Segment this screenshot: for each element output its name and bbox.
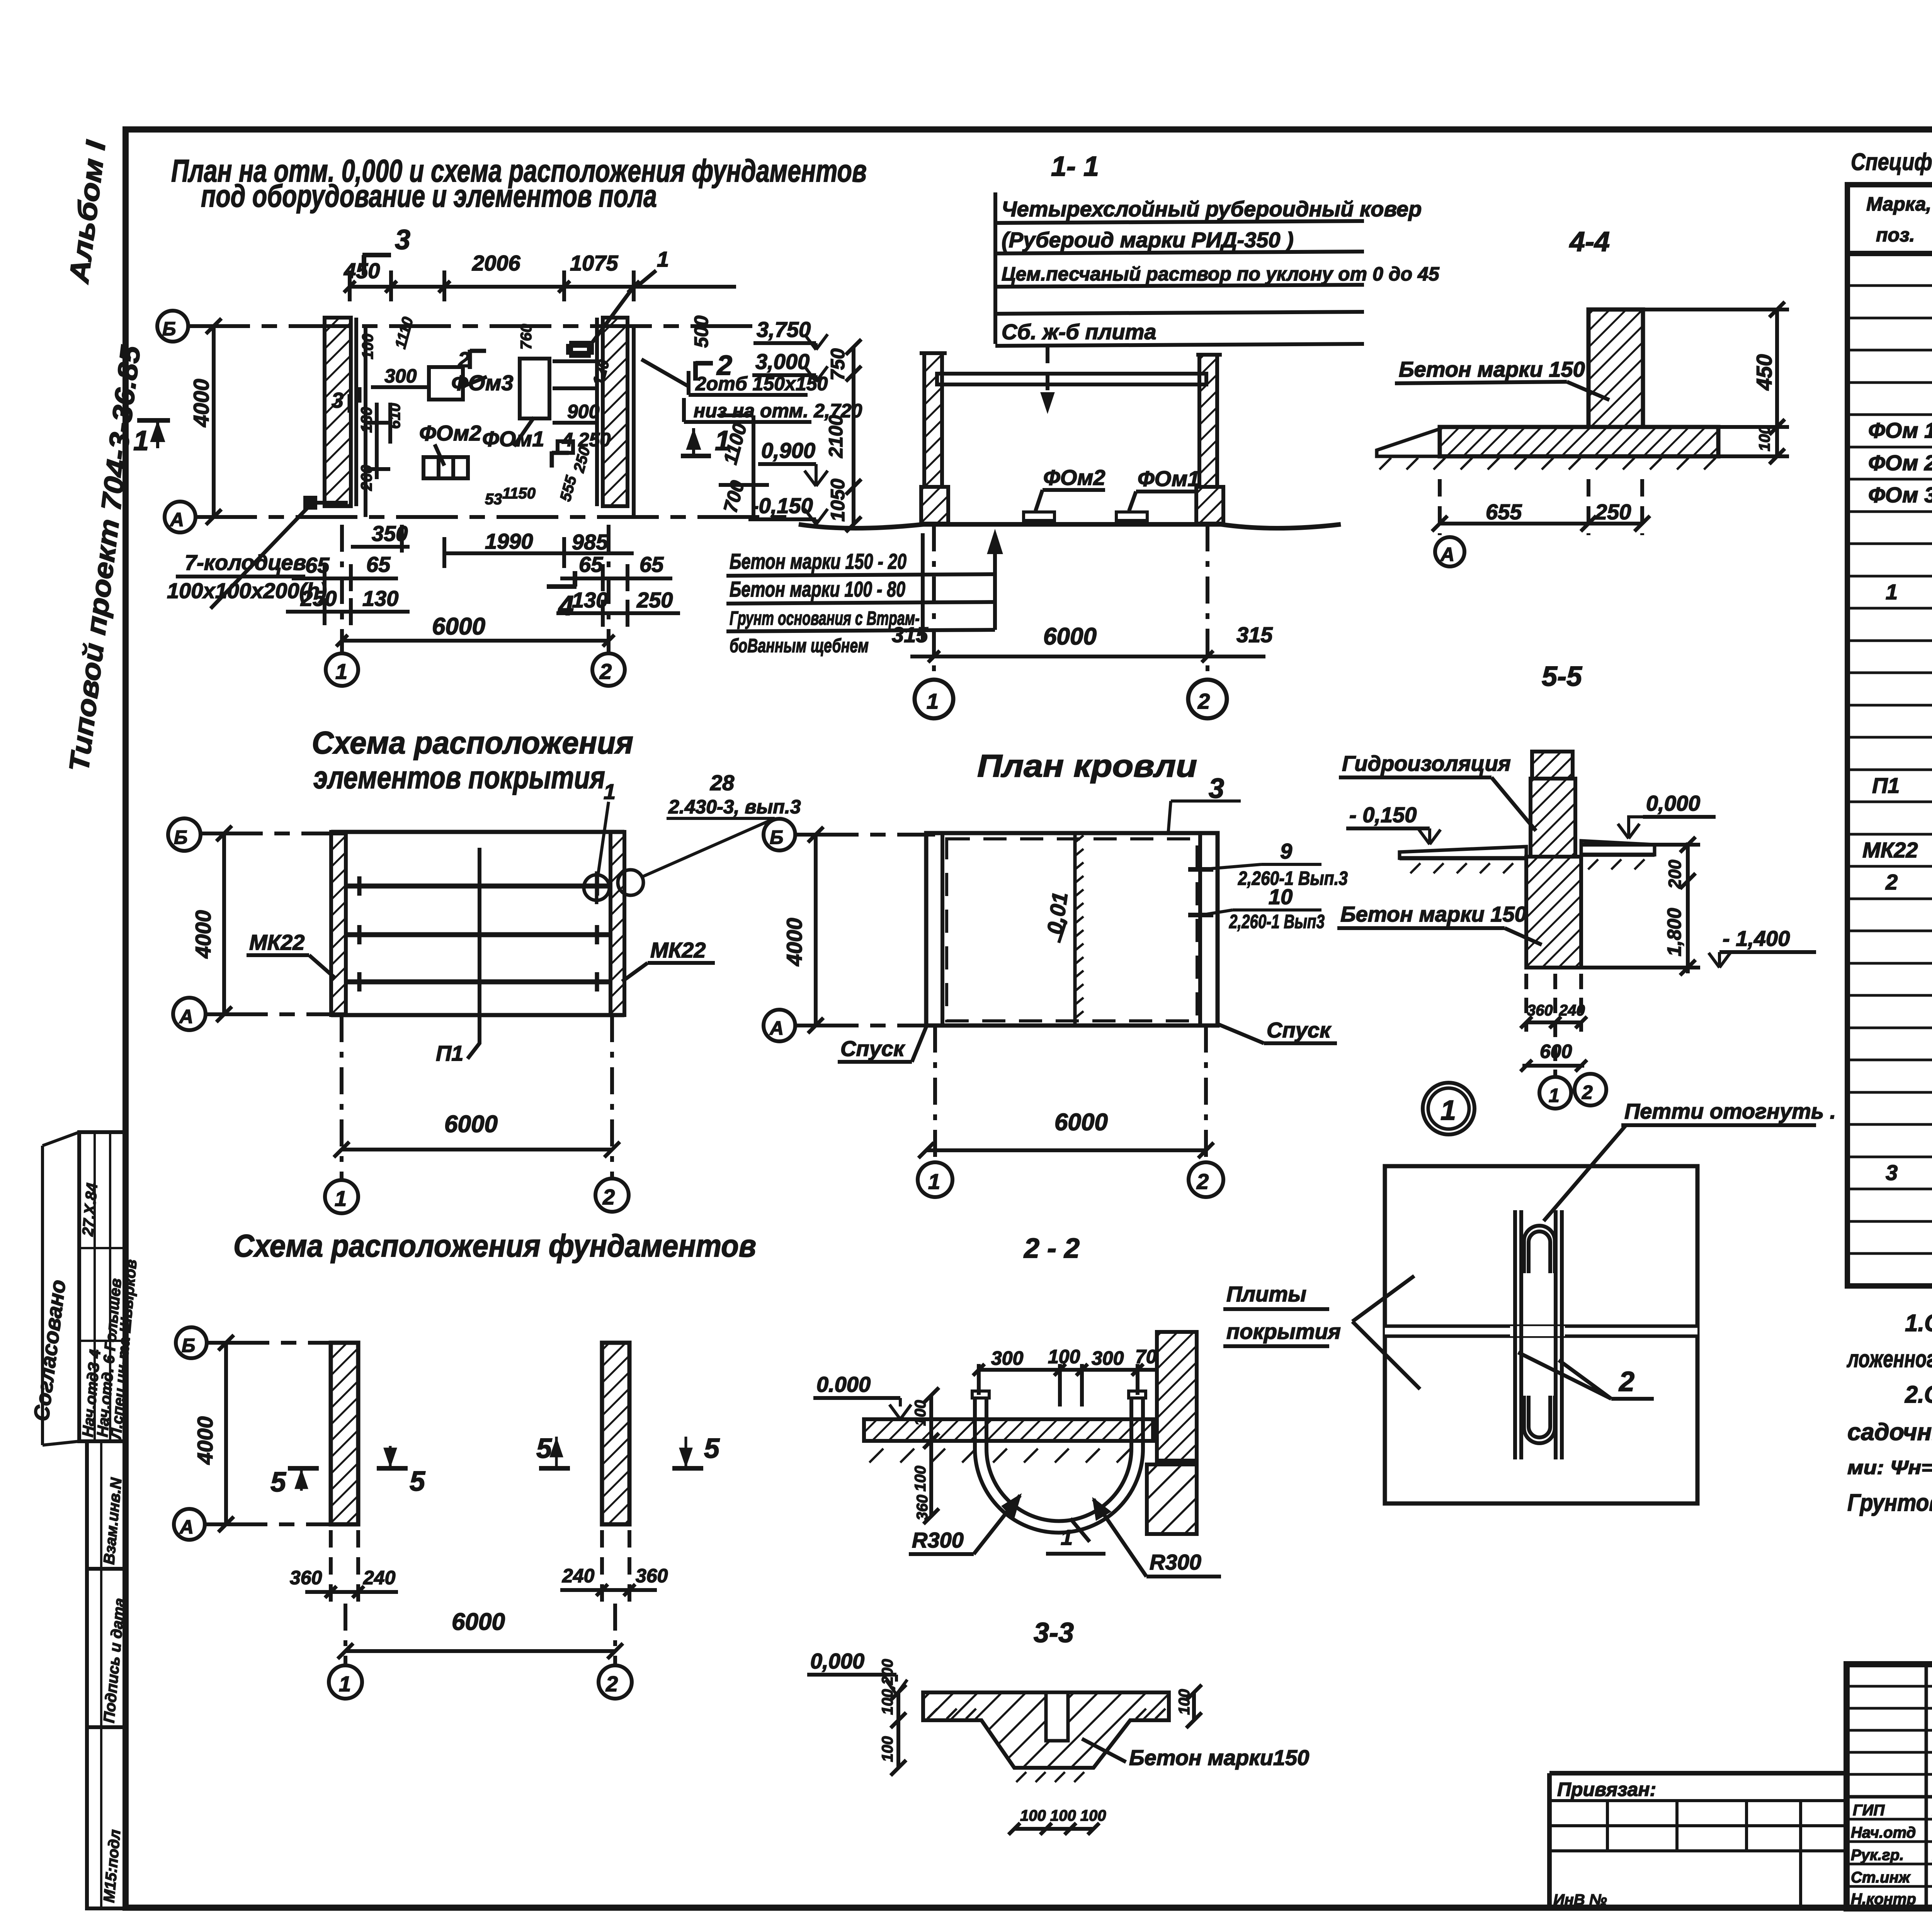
axis circle А	[174, 1509, 205, 1540]
floor slab left	[1400, 847, 1526, 858]
left double edge	[940, 833, 944, 1026]
left wall hatched	[924, 353, 942, 487]
svg-text:1: 1	[1440, 1095, 1456, 1126]
svg-text:100: 100	[1176, 1689, 1193, 1715]
axis line Б	[188, 324, 757, 328]
svg-text:Согласовано: Согласовано	[29, 1278, 70, 1422]
svg-text:ми: Ψн=28°; Сн= 2кПа(0,02кгс/с: ми: Ψн=28°; Сн= 2кПа(0,02кгс/см²); Е=15М…	[1847, 1457, 1932, 1478]
axis circle А	[173, 998, 206, 1030]
vertical dim 4000	[212, 326, 216, 517]
svg-text:2: 2	[716, 350, 732, 381]
svg-text:6000: 6000	[432, 613, 485, 640]
blind area wedge	[1377, 429, 1440, 456]
vertical dim 4000	[814, 835, 818, 1026]
svg-text:100: 100	[1756, 425, 1773, 451]
svg-text:65: 65	[639, 552, 664, 577]
svg-text:0,000: 0,000	[1646, 791, 1700, 815]
beam 2	[346, 932, 611, 937]
svg-text:ФОм 1: ФОм 1	[1868, 418, 1932, 442]
floor slab hatched	[864, 1419, 1153, 1441]
right wall hatched	[603, 318, 628, 506]
svg-text:3-3: 3-3	[1034, 1617, 1074, 1648]
svg-text:1: 1	[928, 1169, 940, 1194]
svg-text:1110: 1110	[392, 315, 417, 351]
svg-text:А: А	[1440, 544, 1454, 565]
axis circle Б	[157, 311, 188, 342]
svg-text:Бетон марки150: Бетон марки150	[1129, 1745, 1309, 1770]
svg-text:4000: 4000	[189, 379, 213, 427]
svg-text:покрытия: покрытия	[1226, 1319, 1341, 1344]
left wall base pier	[921, 487, 948, 524]
axis circle 2	[1188, 680, 1227, 718]
svg-text:300: 300	[384, 365, 417, 387]
svg-text:100: 100	[1048, 1346, 1080, 1367]
bottom dims	[1526, 1020, 1581, 1024]
svg-text:315: 315	[892, 622, 928, 647]
svg-text:3,750: 3,750	[757, 317, 811, 342]
svg-text:ФОм1: ФОм1	[1138, 466, 1200, 491]
mid joint lines	[1385, 1325, 1697, 1328]
channel rim left	[972, 1391, 989, 1398]
svg-text:ФОм3: ФОм3	[451, 371, 514, 395]
svg-text:Ст.инж: Ст.инж	[1851, 1869, 1911, 1886]
note line 4 spacer	[995, 312, 1364, 314]
svg-text:180: 180	[358, 407, 375, 433]
svg-text:Гидроизоляция: Гидроизоляция	[1342, 751, 1511, 776]
vertical dim 4000	[222, 833, 226, 1014]
section mark 5 left-2	[377, 1466, 408, 1471]
svg-text:ФОм1: ФОм1	[482, 427, 544, 451]
svg-text:1: 1	[604, 779, 616, 804]
svg-text:5: 5	[536, 1433, 552, 1464]
svg-text:27.X.84: 27.X.84	[79, 1182, 101, 1237]
channel U outer	[975, 1397, 1143, 1533]
svg-text:70: 70	[1135, 1346, 1157, 1367]
svg-text:130: 130	[362, 586, 398, 611]
svg-text:2: 2	[1582, 1082, 1593, 1103]
axis drop 1	[340, 1015, 344, 1180]
pier upper hatched	[1531, 779, 1575, 857]
svg-text:ФОм 3: ФОм 3	[1868, 483, 1932, 507]
svg-text:3: 3	[1886, 1160, 1898, 1185]
pad ФОм2	[1024, 512, 1054, 520]
svg-text:- 1,400: - 1,400	[1723, 926, 1790, 951]
axis line А	[206, 1012, 348, 1016]
svg-text:(Рубероид марки РИД-350 ): (Рубероид марки РИД-350 )	[1002, 228, 1294, 252]
svg-text:1: 1	[339, 1672, 351, 1696]
svg-text:Марка,: Марка,	[1866, 193, 1931, 215]
axis circle А	[1435, 537, 1464, 566]
svg-text:Сб. ж-б плита: Сб. ж-б плита	[1002, 320, 1156, 344]
vertical dim line	[852, 347, 855, 524]
svg-text:Рук.гр.: Рук.гр.	[1851, 1847, 1904, 1864]
svg-text:боВанным щебнем: боВанным щебнем	[730, 635, 869, 656]
beam 3	[346, 980, 611, 985]
right wall hatched	[1157, 1332, 1197, 1461]
left vertical dims	[896, 1692, 900, 1768]
foundation stem hatched	[1588, 310, 1643, 427]
central notch	[1046, 1692, 1068, 1741]
ground ticks	[927, 1709, 1165, 1782]
axis circle Б	[168, 818, 201, 851]
top dimension line	[350, 285, 736, 289]
svg-text:10: 10	[1269, 884, 1293, 909]
right vertical dim	[1192, 1692, 1196, 1720]
dims above 300 100 300 70	[979, 1368, 1157, 1372]
svg-text:100: 100	[879, 1736, 896, 1762]
svg-text:1: 1	[1886, 580, 1898, 604]
svg-text:6000: 6000	[444, 1111, 498, 1138]
svg-text:100х100х200(h): 100х100х200(h)	[167, 578, 327, 603]
svg-text:2: 2	[602, 1185, 615, 1209]
svg-text:Схема расположения фундаментов: Схема расположения фундаментов	[233, 1228, 756, 1264]
svg-text:0.000: 0.000	[816, 1372, 871, 1396]
pad ФОм1	[1116, 512, 1147, 520]
stamp header slanted lines	[43, 1132, 79, 1146]
svg-text:4 250: 4 250	[562, 429, 611, 451]
plan rect bottom line	[331, 1013, 624, 1017]
axis drop 2	[1204, 1026, 1208, 1162]
svg-text:65: 65	[579, 552, 603, 577]
svg-text:2: 2	[1196, 1169, 1209, 1194]
svg-text:300: 300	[991, 1347, 1024, 1369]
svg-text:2: 2	[605, 1672, 618, 1696]
axis line Б	[201, 832, 348, 835]
svg-text:Петти отогнуть .: Петти отогнуть .	[1624, 1099, 1836, 1123]
dim 360 240 left	[305, 1590, 398, 1594]
svg-text:МК22: МК22	[1862, 838, 1918, 862]
leader from wells label	[211, 506, 309, 609]
beam 1	[346, 884, 611, 889]
svg-text:100 100 100: 100 100 100	[1020, 1807, 1106, 1824]
svg-text:Альбом I: Альбом I	[63, 138, 112, 286]
svg-text:1050: 1050	[827, 479, 849, 522]
channel rim right	[1129, 1391, 1146, 1398]
svg-text:4: 4	[558, 590, 574, 621]
well marker on wall	[305, 498, 315, 508]
svg-text:Типовой проект 704-3-36.85: Типовой проект 704-3-36.85	[63, 344, 146, 774]
right wall hatched	[1199, 355, 1217, 487]
svg-text:250: 250	[1595, 500, 1631, 524]
top U loop	[1529, 1231, 1550, 1273]
axis drop line 1	[340, 525, 344, 653]
svg-text:2.Основанием под фундаменты пр: 2.Основанием под фундаменты приняты непу…	[1905, 1381, 1932, 1408]
axis circle 2	[592, 653, 625, 686]
svg-text:садочные грунты со следующи: садочные грунты со следующими нормативны…	[1847, 1419, 1932, 1446]
leader to poz1	[591, 287, 634, 344]
svg-text:Грунтовые воды отсутствуют.: Грунтовые воды отсутствуют.	[1847, 1490, 1932, 1516]
axis drop line 2	[607, 525, 611, 653]
roof rect outer	[926, 833, 1218, 1026]
svg-text:Цем.песчаный раствор по уклону: Цем.песчаный раствор по уклону от 0 до 4…	[1002, 263, 1440, 285]
svg-text:1: 1	[1061, 1525, 1073, 1549]
axis drop 1	[932, 524, 936, 682]
section mark 5 right-2	[672, 1466, 703, 1471]
svg-text:1- 1: 1- 1	[1051, 151, 1099, 182]
privyazan block	[1549, 1771, 1847, 1776]
svg-text:2: 2	[599, 659, 612, 684]
right double edge	[1198, 833, 1202, 1026]
section marker 1 left	[137, 418, 170, 423]
svg-text:5: 5	[270, 1467, 286, 1498]
svg-text:А: А	[179, 1006, 193, 1027]
П1 leader line	[468, 848, 480, 1059]
svg-text:Н.контр: Н.контр	[1851, 1891, 1916, 1908]
lower stamp strip Инв.N подл	[87, 1727, 126, 1908]
svg-text:450: 450	[344, 259, 380, 283]
axis circle Б	[176, 1327, 207, 1358]
leader arrow down to slab	[1046, 346, 1049, 402]
svg-text:2.430-3, вып.3: 2.430-3, вып.3	[668, 796, 801, 818]
small box right	[558, 441, 573, 453]
svg-text:4-4: 4-4	[1569, 226, 1610, 257]
svg-text:450: 450	[1752, 354, 1776, 391]
svg-text:1: 1	[657, 247, 669, 271]
svg-text:100,200: 100,200	[879, 1659, 896, 1715]
svg-text:ФОм2: ФОм2	[1043, 465, 1105, 490]
dim 240 360 right	[560, 1588, 657, 1592]
svg-text:65: 65	[366, 552, 391, 577]
left wall hatched	[325, 318, 351, 506]
note connector vertical with arrow	[990, 535, 1000, 630]
pier top hatched	[1532, 752, 1573, 779]
svg-text:План кровли: План кровли	[977, 748, 1197, 784]
svg-text:250: 250	[636, 588, 673, 612]
lower stamp strip Подпись и дата	[87, 1569, 126, 1727]
svg-text:Б: Б	[162, 318, 176, 340]
svg-text:МК22: МК22	[249, 930, 304, 954]
svg-text:900: 900	[567, 401, 600, 422]
svg-text:5: 5	[704, 1433, 720, 1464]
svg-text:240: 240	[562, 1565, 595, 1587]
svg-text:760: 760	[518, 324, 535, 350]
svg-text:2006: 2006	[472, 251, 520, 275]
roof note leader vertical	[993, 192, 997, 344]
right wall base pier	[1196, 487, 1223, 524]
right lower block hatched	[1147, 1464, 1197, 1534]
svg-text:Грунт основания с Втрам-: Грунт основания с Втрам-	[730, 607, 920, 629]
axis line Б	[207, 1341, 336, 1345]
svg-text:М15:подл: М15:подл	[100, 1829, 124, 1903]
right wall hatched	[611, 832, 624, 1015]
svg-text:ложенного цементно-песчаного р: ложенного цементно-песчаного раствора то…	[1847, 1346, 1932, 1372]
svg-text:360: 360	[290, 1567, 322, 1588]
pier below ground hatched	[1526, 857, 1581, 968]
svg-text:под оборудование и элементов: под оборудование и элементов пола	[201, 179, 657, 214]
axis drop 1	[344, 1604, 347, 1665]
axis drop 1	[933, 1026, 937, 1162]
dashed inner rect	[947, 839, 1197, 1021]
axis circle 1	[915, 680, 953, 718]
svg-text:Привязан:: Привязан:	[1557, 1779, 1656, 1800]
svg-text:П1: П1	[436, 1041, 463, 1065]
left foundation strip hatched	[331, 1343, 358, 1524]
svg-text:2,260-1 Вып.3: 2,260-1 Вып.3	[1238, 867, 1348, 889]
svg-text:1: 1	[335, 1186, 347, 1211]
svg-text:элементов покрытия: элементов покрытия	[313, 760, 605, 795]
svg-text:28: 28	[710, 770, 735, 795]
ground hatch ticks 5-5	[1410, 859, 1645, 873]
svg-text:0,01: 0,01	[1042, 891, 1072, 936]
slab with pit hatched	[923, 1692, 1169, 1768]
axis drop 2	[613, 1604, 617, 1665]
svg-text:3: 3	[332, 388, 344, 412]
svg-text:2: 2	[1885, 870, 1898, 894]
svg-text:53: 53	[485, 491, 502, 508]
svg-text:2 - 2: 2 - 2	[1023, 1233, 1080, 1264]
svg-text:Схема расположения: Схема расположения	[312, 725, 633, 760]
ground line under slabs 5-5	[1400, 856, 1526, 861]
tick marks on right edge	[1188, 867, 1213, 872]
foundation flange hatched	[1440, 427, 1718, 456]
axis circle 2	[1575, 1074, 1606, 1105]
axis line А	[797, 1024, 935, 1027]
section marker 3 top	[362, 253, 391, 257]
channel U inner	[986, 1397, 1131, 1521]
svg-text:985: 985	[572, 530, 608, 554]
section marker 4 bottom	[547, 584, 577, 589]
svg-text:Плиты: Плиты	[1226, 1282, 1306, 1306]
svg-text:360: 360	[1527, 1002, 1553, 1019]
svg-text:Бетон марки 150: Бетон марки 150	[1399, 357, 1585, 381]
bottom dim line	[910, 655, 1265, 658]
svg-text:ГИП: ГИП	[1853, 1802, 1885, 1819]
svg-text:100: 100	[912, 1466, 929, 1492]
svg-text:300: 300	[1092, 1347, 1124, 1369]
svg-text:- 0,150: - 0,150	[1349, 803, 1417, 827]
svg-text:750: 750	[827, 348, 849, 381]
svg-text:240: 240	[363, 1567, 396, 1588]
svg-text:Нач.отд: Нач.отд	[1851, 1824, 1916, 1841]
axis circle А	[165, 502, 196, 532]
svg-text:А: А	[179, 1516, 194, 1538]
vertical dim 4000	[224, 1343, 228, 1524]
svg-text:6000: 6000	[1054, 1109, 1108, 1136]
section mark 5 right-1	[539, 1466, 570, 1471]
svg-text:А: А	[169, 509, 184, 531]
section mark 5 left-1	[288, 1466, 319, 1471]
axis drop 2	[610, 1015, 614, 1180]
svg-text:3: 3	[395, 224, 410, 255]
svg-text:5-5: 5-5	[1542, 661, 1582, 692]
svg-text:4000: 4000	[782, 918, 806, 966]
svg-text:4000: 4000	[191, 910, 215, 959]
stamp table Согласовано block	[79, 1132, 126, 1441]
axis circle 1	[325, 1180, 358, 1213]
svg-text:1: 1	[1549, 1085, 1560, 1106]
detail circle 1 double	[1423, 1083, 1475, 1134]
axis circle А	[764, 1010, 795, 1041]
left sub-block column lines	[1925, 1664, 1928, 1908]
svg-text:100: 100	[359, 333, 376, 359]
equipment rect B (ФОм1)	[520, 359, 549, 418]
svg-text:555: 555	[557, 474, 580, 503]
svg-text:R300: R300	[912, 1528, 964, 1552]
svg-text:Спуск: Спуск	[1267, 1018, 1332, 1042]
svg-text:Спецификация к схемам располож: Спецификация к схемам расположения конст…	[1851, 149, 1932, 175]
svg-text:1.Сборные железобетонные плиты: 1.Сборные железобетонные плиты укладыват…	[1905, 1310, 1932, 1337]
svg-text:Б: Б	[770, 827, 783, 848]
svg-text:0,900: 0,900	[761, 438, 815, 463]
svg-text:655: 655	[1486, 500, 1522, 524]
leaders to plates	[1352, 1276, 1414, 1321]
left vertical dims	[929, 1395, 933, 1516]
parapet top marks	[920, 351, 947, 355]
svg-text:Спуск: Спуск	[840, 1036, 905, 1061]
svg-text:Б: Б	[182, 1335, 195, 1356]
svg-text:1: 1	[133, 425, 149, 456]
left wall inner face lines	[354, 318, 358, 506]
equipment rect A	[429, 367, 463, 400]
middle ridge hatched strip	[1073, 835, 1077, 1026]
svg-text:500: 500	[690, 315, 712, 348]
axis circle Б	[764, 819, 795, 850]
svg-text:1,800: 1,800	[1663, 908, 1685, 956]
svg-text:6000: 6000	[1043, 623, 1097, 650]
svg-text:600: 600	[1540, 1041, 1572, 1062]
axis circle 2	[595, 1179, 629, 1212]
axis circle 1	[918, 1162, 952, 1197]
svg-text:5: 5	[410, 1466, 425, 1497]
connection circle marker 2	[618, 870, 643, 895]
svg-text:ИнВ №: ИнВ №	[1553, 1891, 1607, 1908]
axis drop 2	[1206, 524, 1209, 682]
axis circle 1	[326, 653, 358, 686]
svg-text:1: 1	[927, 689, 939, 713]
bottom U loop	[1529, 1396, 1550, 1437]
plan rect top line	[331, 830, 624, 834]
equipment small pair rect	[423, 457, 468, 478]
svg-text:П1: П1	[1872, 773, 1900, 798]
small item top right (poz.1 pipes)	[568, 346, 592, 353]
svg-text:поз.: поз.	[1876, 224, 1915, 246]
svg-text:А: А	[769, 1017, 784, 1039]
ground hatch ticks	[1379, 458, 1716, 469]
svg-text:100: 100	[912, 1400, 929, 1426]
floor slab right	[1581, 841, 1655, 855]
row lines	[1847, 284, 1932, 287]
svg-text:Бетон марки 150 - 20: Бетон марки 150 - 20	[730, 549, 906, 573]
svg-text:-0,150: -0,150	[752, 493, 813, 518]
svg-text:360: 360	[636, 1565, 668, 1587]
right dim 450	[1775, 310, 1779, 456]
svg-text:6000: 6000	[452, 1609, 505, 1635]
bottom dim 655 250	[1440, 522, 1642, 526]
leader to boxed note	[641, 359, 689, 386]
svg-text:1150: 1150	[502, 485, 536, 502]
svg-text:МК22: МК22	[650, 938, 706, 962]
svg-text:Взам.инв.N: Взам.инв.N	[100, 1477, 125, 1565]
title block outer	[1847, 1664, 1932, 1908]
left wall hatched	[331, 832, 346, 1015]
axis circle 2	[1189, 1162, 1223, 1197]
svg-text:240: 240	[1559, 1002, 1585, 1019]
svg-text:200: 200	[1665, 860, 1685, 889]
svg-text:360: 360	[914, 1495, 931, 1520]
left sub-block row lines	[1847, 1685, 1932, 1688]
roof slab	[937, 374, 1206, 384]
svg-text:0,000: 0,000	[810, 1649, 864, 1673]
bottom small dims	[1014, 1827, 1094, 1831]
svg-text:9: 9	[1280, 839, 1292, 863]
section marker 1 right with arrow	[688, 428, 699, 456]
leader 1 top right	[638, 270, 656, 286]
axis circle 1	[1539, 1077, 1571, 1109]
loop bars	[1513, 1210, 1517, 1459]
connection circle marker 1	[584, 875, 609, 900]
vertical dim right	[1686, 842, 1690, 973]
svg-text:4000: 4000	[193, 1416, 217, 1465]
